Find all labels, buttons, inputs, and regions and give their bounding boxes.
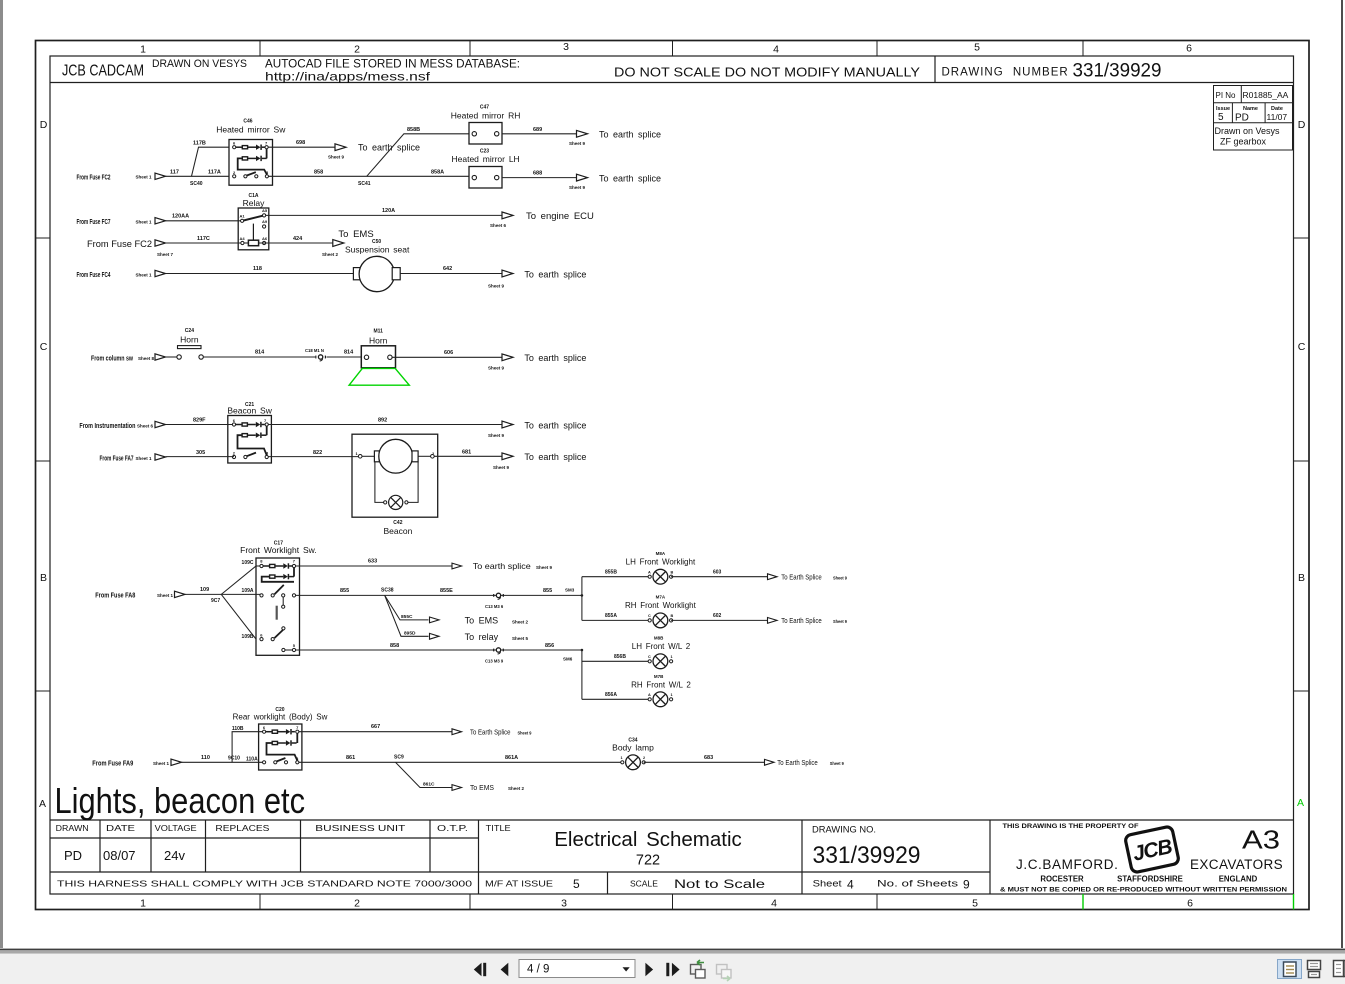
wire 858B branch [367,134,469,177]
svg-text:http://ina/apps/mess.nsf: http://ina/apps/mess.nsf [265,70,431,84]
toolbar page layout buttons [1278,960,1302,979]
svg-text:To relay: To relay [465,632,499,642]
svg-text:A: A [39,798,46,810]
header bottom line [50,82,1294,84]
svg-text:1: 1 [671,693,673,697]
svg-text:C24: C24 [185,328,194,334]
svg-text:M8B: M8B [654,635,664,640]
connector C13 M3 6 [494,593,504,599]
wire 110B branch [232,732,264,763]
svg-text:856B: 856B [614,654,626,660]
svg-text:861C: 861C [423,782,435,788]
svg-text:SCALE: SCALE [630,879,658,889]
svg-text:642: 642 [443,266,452,272]
svg-text:Lights, beacon etc: Lights, beacon etc [55,780,306,821]
svg-text:Sheet 9: Sheet 9 [328,155,345,160]
svg-text:VOLTAGE: VOLTAGE [155,823,197,833]
svg-text:C: C [1298,341,1306,353]
svg-text:D: D [40,119,48,131]
svg-text:A4: A4 [240,236,246,241]
svg-text:Sheet 9: Sheet 9 [488,365,505,370]
wire 814 [203,356,315,358]
wire 305 [166,456,235,458]
svg-text:From Fuse FC4: From Fuse FC4 [77,272,111,279]
svg-text:To earth splice: To earth splice [524,452,586,462]
wire 689 [502,133,577,135]
svg-text:331/39929: 331/39929 [1073,61,1162,82]
svg-text:855C: 855C [401,614,413,620]
svg-text:4: 4 [773,44,779,56]
svg-text:C: C [648,614,651,618]
svg-text:1: 1 [671,655,673,659]
svg-text:688: 688 [533,170,542,176]
svg-text:603: 603 [713,570,722,576]
svg-text:895D: 895D [404,631,416,637]
svg-text:Sheet 6: Sheet 6 [137,424,154,429]
toolbar page combo [519,960,635,978]
svg-text:Sheet 9: Sheet 9 [830,761,844,766]
svg-text:Sheet 9: Sheet 9 [569,185,586,190]
svg-text:To Earth Splice: To Earth Splice [777,760,818,767]
svg-text:B: B [671,614,674,618]
svg-text:9: 9 [963,878,970,892]
svg-text:Heated mirror RH: Heated mirror RH [451,111,521,121]
svg-text:Sheet 7: Sheet 7 [157,252,174,257]
svg-text:SM6: SM6 [563,656,573,661]
svg-text:Sheet 1: Sheet 1 [136,219,153,224]
svg-text:A6: A6 [262,236,268,241]
JCB logo [1125,826,1180,873]
svg-text:120A: 120A [382,208,395,214]
wire 895D branch to relay [385,595,429,636]
svg-text:08/07: 08/07 [103,848,136,863]
connector C13 M3 9 [494,648,504,654]
svg-text:To earth splice: To earth splice [524,420,586,430]
svg-text:A9: A9 [262,219,268,224]
svg-text:A5: A5 [262,208,268,213]
svg-text:THIS HARNESS SHALL COMPLY: THIS HARNESS SHALL COMPLY WITH JCB STAND… [57,879,472,889]
wire 117C [166,242,243,244]
C20 internals [263,725,300,764]
wire 855 [296,594,582,596]
svg-text:4 / 9: 4 / 9 [527,964,549,976]
svg-text:117C: 117C [197,236,210,242]
svg-text:LH Front W/L 2: LH Front W/L 2 [632,642,691,651]
svg-text:698: 698 [296,140,305,146]
svg-text:681: 681 [462,449,471,455]
svg-text:Name: Name [1243,106,1258,112]
svg-text:722: 722 [636,853,660,869]
svg-text:1: 1 [140,898,146,910]
svg-text:SC40: SC40 [190,181,203,187]
svg-text:855A: 855A [605,613,617,619]
svg-text:667: 667 [371,724,380,730]
svg-text:1: 1 [621,756,623,760]
svg-text:REPLACES: REPLACES [215,823,269,833]
C17 internals [256,559,296,652]
wire 892 [268,424,502,426]
svg-text:Front Worklight Sw.: Front Worklight Sw. [240,545,317,555]
svg-text:24v: 24v [164,848,185,863]
wire 681 [434,455,502,457]
svg-text:Sheet 2: Sheet 2 [512,619,529,624]
wire 688 [502,177,577,179]
svg-text:BUSINESS UNIT: BUSINESS UNIT [315,823,405,833]
svg-text:4: 4 [771,898,777,910]
svg-text:LH Front Worklight: LH Front Worklight [626,558,696,567]
svg-text:109C: 109C [242,560,254,566]
beacon lamp C42 [375,462,384,503]
svg-text:TITLE: TITLE [486,823,511,833]
svg-text:C: C [40,341,48,353]
wire 698 [268,146,335,148]
svg-text:C13 M3 9: C13 M3 9 [485,659,504,664]
svg-text:855: 855 [340,588,349,594]
svg-text:AUTOCAD FILE STORED IN MESS DA: AUTOCAD FILE STORED IN MESS DATABASE: [265,57,520,71]
svg-text:683: 683 [704,755,713,761]
wire 602 [671,619,767,621]
wire 109A [221,593,261,595]
svg-text:2: 2 [354,898,360,910]
svg-text:JCB CADCAM: JCB CADCAM [62,63,144,80]
right inner border green segment [1293,894,1295,910]
wire 829F [166,424,235,426]
svg-text:120AA: 120AA [172,213,189,219]
svg-text:855: 855 [543,588,552,594]
svg-text:109A: 109A [242,588,254,594]
svg-text:856A: 856A [605,692,617,698]
svg-text:858: 858 [314,169,323,175]
svg-text:Sheet 1: Sheet 1 [136,272,153,277]
svg-text:DRAWING NUMBER: DRAWING NUMBER [942,67,1069,79]
svg-text:4: 4 [847,878,854,892]
svg-text:RH Front W/L 2: RH Front W/L 2 [631,680,691,689]
svg-text:Sheet 2: Sheet 2 [322,252,339,257]
svg-text:A: A [648,693,651,697]
svg-text:& MUST NOT BE COPIED OR RE-PRO: & MUST NOT BE COPIED OR RE-PRODUCED WITH… [1000,887,1287,894]
bottom tick green [1082,894,1084,910]
svg-text:To earth splice: To earth splice [524,269,586,279]
svg-text:117: 117 [170,169,179,175]
svg-text:M7B: M7B [654,674,664,679]
wire 118 [166,273,354,275]
svg-text:602: 602 [713,613,722,619]
svg-text:EXCAVATORS: EXCAVATORS [1190,857,1283,872]
svg-text:Sheet 1: Sheet 1 [136,456,153,461]
motor body [353,268,361,280]
svg-text:5: 5 [573,877,580,891]
svg-text:858: 858 [390,643,399,649]
svg-text:424: 424 [293,236,303,242]
svg-text:ROCESTER: ROCESTER [1040,875,1084,884]
svg-text:A3: A3 [1242,824,1280,854]
svg-text:Sheet 8: Sheet 8 [138,356,155,361]
svg-text:3: 3 [563,41,569,53]
svg-text:No. of Sheets: No. of Sheets [877,879,958,890]
wire 109 [185,593,221,595]
wire 109B branch [221,594,256,639]
svg-text:Sheet 9: Sheet 9 [518,730,532,735]
svg-text:To EMS: To EMS [465,615,499,625]
wire 861C branch to EMS [396,762,453,787]
svg-text:Sheet 2: Sheet 2 [508,786,525,791]
wire 120AA [166,220,243,222]
right row ticks [1294,237,1310,239]
svg-text:DRAWN: DRAWN [56,823,89,833]
svg-text:To engine ECU: To engine ECU [526,211,594,222]
svg-text:11/07: 11/07 [1267,112,1288,122]
svg-text:To earth splice: To earth splice [599,173,661,183]
wire 120A [266,214,502,216]
svg-text:Sheet 9: Sheet 9 [536,565,553,570]
svg-text:To EMS: To EMS [470,785,494,792]
svg-text:C18 M1 N: C18 M1 N [305,348,324,353]
svg-text:DRAWING NO.: DRAWING NO. [812,825,876,835]
svg-text:5: 5 [972,898,978,910]
wire 822 [268,456,358,458]
svg-text:861A: 861A [505,755,518,761]
svg-text:B: B [671,571,674,575]
toolbar prev-view icon [691,960,706,978]
svg-text:117A: 117A [208,169,221,175]
svg-text:SC41: SC41 [358,181,371,187]
svg-text:829F: 829F [193,417,206,423]
svg-text:To Earth Splice: To Earth Splice [781,618,822,625]
toolbar first-page button [474,963,509,976]
svg-text:From Instrumentation: From Instrumentation [79,423,135,430]
svg-text:Beacon Sw: Beacon Sw [227,406,272,416]
svg-text:From Fuse FA8: From Fuse FA8 [95,592,135,599]
svg-text:861: 861 [346,755,355,761]
header divider [934,56,936,83]
svg-text:SM3: SM3 [565,588,575,593]
svg-text:Sheet 9: Sheet 9 [493,465,510,470]
svg-text:Heated mirror Sw: Heated mirror Sw [216,125,286,135]
wire 855C branch to EMS [385,595,429,620]
svg-text:814: 814 [344,350,354,356]
wire 861 [299,761,622,763]
svg-text:Sheet 1: Sheet 1 [153,761,170,766]
wire 858 lower feed [296,649,582,651]
svg-text:A: A [1297,797,1304,809]
frame inner border [50,56,1294,894]
svg-text:6: 6 [1186,43,1192,55]
svg-text:M7A: M7A [656,595,666,600]
svg-text:To earth splice: To earth splice [599,130,661,140]
wire 606 [392,356,502,358]
page right border [1341,0,1343,948]
svg-text:From column sw: From column sw [91,355,133,362]
svg-text:Electrical Schematic: Electrical Schematic [554,828,742,851]
svg-text:110B: 110B [232,726,244,732]
svg-text:M11: M11 [373,329,383,335]
bottom column ticks [259,894,261,910]
svg-text:From Fuse FC2: From Fuse FC2 [87,239,152,250]
svg-text:STAFFORDSHIRE: STAFFORDSHIRE [1117,875,1183,884]
wire worklight branch [581,577,583,621]
svg-text:DRAWN ON VESYS: DRAWN ON VESYS [152,58,247,70]
svg-text:From Fuse FA7: From Fuse FA7 [100,456,134,463]
svg-text:B: B [1298,572,1305,584]
svg-text:Horn: Horn [369,336,388,346]
svg-text:Sheet 9: Sheet 9 [833,575,847,580]
wire 667 [299,731,452,733]
svg-text:117B: 117B [193,141,206,147]
relay coil [252,224,254,241]
svg-text:To earth splice: To earth splice [473,561,531,571]
svg-text:Sheet 9: Sheet 9 [488,283,505,288]
zone numbers top [140,41,1192,56]
svg-text:Sheet: Sheet [813,879,842,890]
svg-text:856: 856 [545,643,554,649]
svg-text:SC9: SC9 [394,755,404,761]
svg-text:Sheet 1: Sheet 1 [136,175,153,180]
svg-text:To Earth Splice: To Earth Splice [781,574,822,581]
svg-text:O.T.P.: O.T.P. [437,823,468,833]
svg-text:855B: 855B [605,570,617,576]
svg-text:Rear worklight (Body) Sw: Rear worklight (Body) Sw [233,713,328,722]
svg-text:DO NOT SCALE DO NOT MODIFY MAN: DO NOT SCALE DO NOT MODIFY MANUALLY [614,65,920,80]
svg-text:2: 2 [643,756,645,760]
svg-text:Not to Scale: Not to Scale [674,879,765,891]
svg-text:1: 1 [140,44,146,56]
beacon C42 assembly box [352,434,438,517]
svg-text:689: 689 [533,127,542,133]
zone letters [39,119,1306,810]
svg-text:Sheet 9: Sheet 9 [488,433,505,438]
svg-text:M/F AT ISSUE: M/F AT ISSUE [485,879,553,889]
wire 642 [400,273,502,275]
svg-text:Suspension seat: Suspension seat [345,244,410,254]
svg-text:PD: PD [1235,113,1249,124]
svg-text:PI No: PI No [1216,91,1237,100]
wire 110 [182,761,265,763]
left row ticks [36,237,51,239]
wire W/L2 branch [581,650,583,699]
svg-text:2: 2 [354,44,360,56]
svg-text:A1: A1 [240,214,246,219]
svg-text:J.C.BAMFORD.: J.C.BAMFORD. [1016,857,1118,872]
toolbar next buttons [645,963,679,976]
svg-text:B: B [40,572,47,584]
svg-text:To EMS: To EMS [338,229,373,240]
svg-text:814: 814 [255,350,265,356]
svg-text:C: C [648,655,651,659]
wire 633 [296,565,452,567]
svg-text:855E: 855E [440,588,453,594]
wire from-arrow FC2 [155,173,166,179]
svg-text:Sheet 1: Sheet 1 [157,593,174,598]
svg-text:5: 5 [974,42,980,54]
svg-text:305: 305 [196,450,205,456]
svg-text:9C10: 9C10 [228,755,240,761]
svg-text:A: A [648,571,651,575]
svg-text:RH Front Worklight: RH Front Worklight [625,601,697,610]
top column ticks [259,41,261,57]
svg-text:R01885_AA: R01885_AA [1243,90,1289,100]
svg-text:892: 892 [378,417,387,423]
svg-text:858A: 858A [431,169,444,175]
svg-text:THIS DRAWING IS THE PROPER: THIS DRAWING IS THE PROPERTY OF [1003,823,1139,830]
wire 858 [269,175,470,177]
svg-text:Sheet 5: Sheet 5 [512,636,529,641]
wire 117B branch [192,147,230,176]
svg-text:109B: 109B [242,634,254,640]
svg-text:109: 109 [200,587,209,593]
svg-text:PD: PD [64,848,82,863]
svg-text:Horn: Horn [180,335,199,345]
svg-text:To earth splice: To earth splice [524,353,586,363]
svg-text:331/39929: 331/39929 [813,842,921,869]
zone numbers bottom [140,898,1193,910]
svg-text:From Fuse FC7: From Fuse FC7 [77,219,111,226]
svg-text:633: 633 [368,559,377,565]
svg-text:9C7: 9C7 [211,598,220,604]
svg-text:Beacon: Beacon [383,526,412,536]
wire 683 [644,761,765,763]
svg-text:SC38: SC38 [381,588,394,594]
wire 117 [166,175,230,177]
wire 424 [259,242,333,244]
wire 109C branch [221,566,256,594]
svg-text:5: 5 [1218,112,1224,123]
window left edge [0,0,3,948]
svg-text:822: 822 [313,450,322,456]
toolbar next-view icon (disabled) [717,965,732,982]
svg-text:110A: 110A [246,756,258,762]
svg-text:From Fuse FC2: From Fuse FC2 [77,175,111,182]
svg-text:C13 M3 6: C13 M3 6 [485,604,504,609]
svg-text:Heated mirror LH: Heated mirror LH [452,154,520,164]
svg-text:606: 606 [444,350,453,356]
svg-text:To Earth Splice: To Earth Splice [470,729,511,736]
svg-text:Sheet 6: Sheet 6 [490,223,507,228]
svg-text:Relay: Relay [243,198,265,208]
svg-text:3: 3 [561,898,567,910]
svg-text:Body lamp: Body lamp [612,743,654,753]
svg-text:858B: 858B [407,127,420,133]
svg-text:Sheet 9: Sheet 9 [569,141,586,146]
horn cone (green) [349,368,409,385]
svg-text:Drawn on Vesys: Drawn on Vesys [1215,126,1281,136]
svg-text:118: 118 [253,266,262,272]
svg-text:Sheet 9: Sheet 9 [833,619,847,624]
svg-text:M8A: M8A [656,551,666,556]
svg-text:110: 110 [201,755,210,761]
svg-text:DATE: DATE [106,823,135,833]
svg-text:6: 6 [1187,898,1193,910]
svg-text:ENGLAND: ENGLAND [1219,875,1258,884]
svg-text:From Fuse FA9: From Fuse FA9 [92,760,133,767]
svg-text:D: D [1298,119,1306,131]
wire 603 [671,576,767,578]
svg-text:ZF gearbox: ZF gearbox [1220,137,1267,147]
